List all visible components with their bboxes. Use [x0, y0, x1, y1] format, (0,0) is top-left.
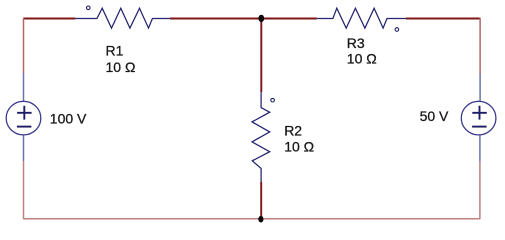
V2 plus sign — [472, 106, 487, 120]
wire top-right horizontal (R3 to V2) — [406, 18, 480, 20]
svg-text:50 V: 50 V — [420, 108, 449, 124]
wire bottom horizontal — [24, 218, 481, 220]
junction node A (top) — [258, 15, 264, 22]
wire top-middle horizontal (R1 to node A) — [170, 18, 262, 20]
V2 minus sign — [472, 126, 487, 128]
wire left vertical upper (red segment) — [23, 18, 25, 73]
resistor R3 — [317, 8, 406, 28]
wire left vertical lead from V1 bottom (blue segment) — [23, 135, 25, 161]
svg-text:10 Ω: 10 Ω — [284, 139, 314, 155]
resistor R2 — [252, 92, 270, 182]
voltage source V2 (50 V) circle — [461, 101, 496, 135]
wire right vertical lead from V2 bottom (blue segment) — [479, 135, 481, 161]
wire top-left horizontal (net from V1 to R1) — [24, 18, 76, 20]
V1 plus sign — [17, 106, 32, 120]
svg-text:10 Ω: 10 Ω — [347, 51, 377, 67]
junction node B (bottom) — [258, 216, 263, 223]
wire middle vertical lower (R2 to node B) — [260, 182, 262, 219]
wire top-right-of-node horizontal (node A to R3) — [261, 18, 317, 20]
wire right vertical upper (red segment) — [479, 18, 481, 73]
pin-1 marker of R1 — [87, 6, 91, 10]
svg-text:R3: R3 — [347, 35, 365, 51]
wire right vertical lead to V2 top (blue segment) — [479, 73, 481, 102]
pin-1 marker of R2 — [271, 98, 275, 102]
wire left vertical lead to V1 top (blue segment) — [23, 73, 25, 102]
voltage source V1 (100 V) circle — [6, 101, 41, 135]
wire middle vertical upper (node A to R2) — [260, 19, 262, 93]
svg-text:R1: R1 — [106, 42, 124, 58]
wire right vertical lower (pink segment) — [479, 161, 481, 219]
V1 minus sign — [17, 126, 32, 128]
pin-2 marker of R3 — [395, 28, 399, 32]
svg-text:10 Ω: 10 Ω — [106, 59, 136, 75]
svg-text:100 V: 100 V — [50, 111, 87, 127]
wire left vertical lower (pink segment) — [23, 161, 25, 219]
svg-text:R2: R2 — [284, 122, 302, 138]
resistor R1 — [75, 8, 169, 28]
